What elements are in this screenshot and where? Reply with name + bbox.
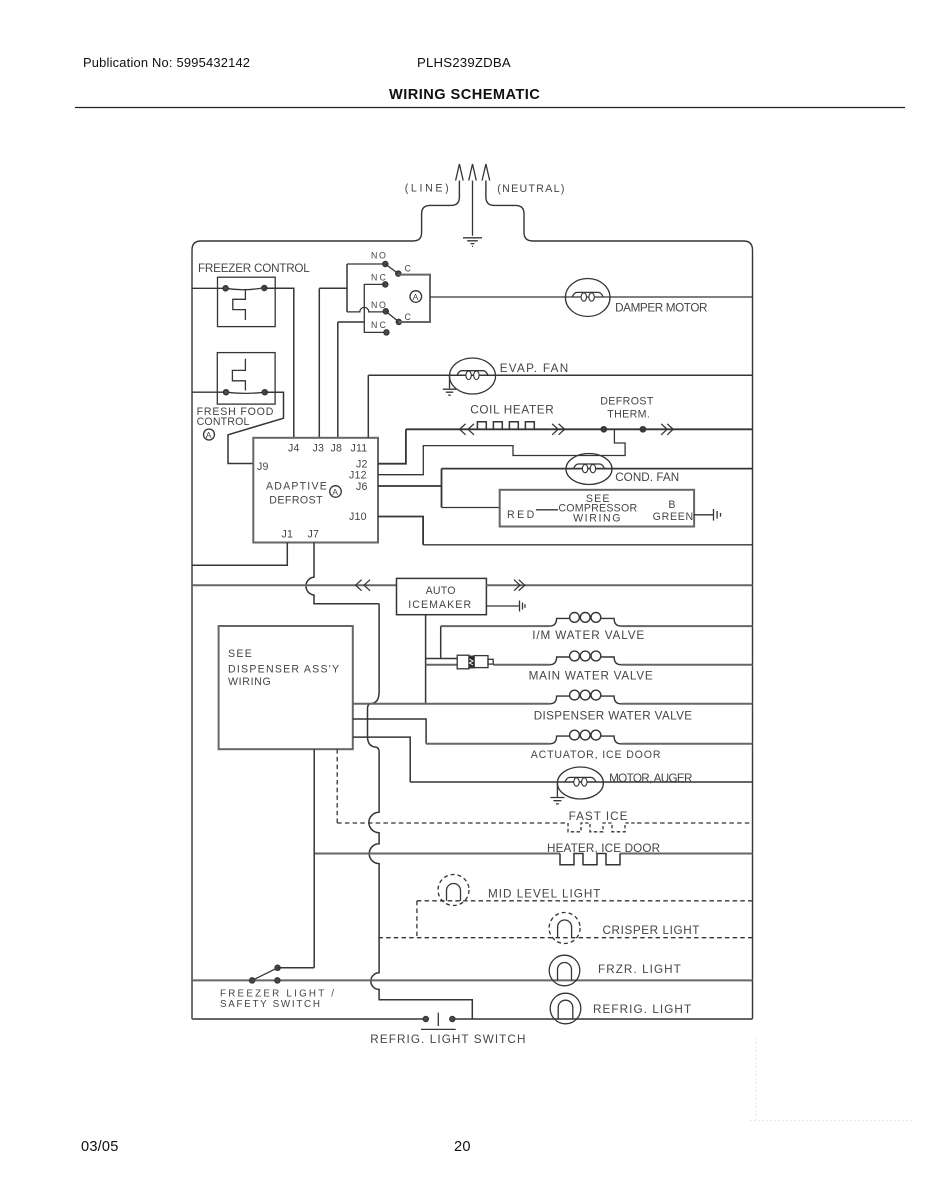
wire: I/M water valve line	[441, 625, 753, 627]
svg-text:GREEN: GREEN	[653, 511, 694, 523]
auger motor body	[557, 767, 603, 799]
wire: NC feed from J8 riser	[338, 322, 365, 438]
svg-text:WIRING: WIRING	[573, 512, 621, 524]
wire: compressor red lead	[442, 507, 500, 509]
wire: I/M valve branch jog	[426, 626, 458, 658]
svg-text:J1: J1	[282, 529, 294, 541]
compressor chassis ground symbol	[714, 509, 721, 521]
auto icemaker box	[397, 578, 487, 614]
svg-text:CRISPER LIGHT: CRISPER LIGHT	[603, 924, 700, 937]
svg-text:FAST ICE: FAST ICE	[569, 810, 628, 823]
frzr light bulb	[549, 955, 580, 986]
connector chevrons << on icemaker line	[356, 580, 370, 591]
svg-text:J11: J11	[351, 443, 368, 455]
outer boundary right edge	[744, 241, 753, 1019]
wire B: J3 riser to relay common	[319, 288, 347, 438]
wire: dispenser box to auger motor line	[353, 737, 410, 782]
svg-text:FREEZER CONTROL: FREEZER CONTROL	[198, 262, 310, 275]
wire: heater ice door line	[314, 853, 752, 855]
mid level light bulb (dashed)	[438, 875, 469, 906]
svg-text:FREEZER LIGHT /: FREEZER LIGHT /	[220, 989, 334, 1000]
wire: left bus to freezer control	[192, 287, 226, 289]
svg-text:B: B	[668, 499, 675, 511]
wire: main water valve line	[426, 664, 753, 666]
svg-text:HEATER, ICE DOOR: HEATER, ICE DOOR	[547, 842, 660, 855]
wire: J10 to neutral bus	[378, 517, 423, 545]
svg-text:J10: J10	[349, 511, 367, 523]
relay contact C2	[396, 319, 401, 324]
svg-text:NC: NC	[371, 273, 386, 283]
svg-text:SEE: SEE	[228, 648, 252, 660]
connector chevrons << on heater line	[460, 424, 474, 435]
fresh food contact right	[262, 390, 267, 395]
wire: damper motor line	[430, 296, 753, 298]
svg-text:J9: J9	[257, 461, 269, 473]
defrost circled A	[330, 486, 342, 498]
wire: left bus to auto icemaker	[192, 584, 397, 586]
wire: coil heater / defrost therm line	[406, 428, 753, 430]
svg-text:RED: RED	[507, 509, 535, 521]
outer boundary bottom edge (left of light switch)	[192, 1018, 426, 1020]
inline connector on main valve line	[457, 655, 493, 669]
damper motor winding loops	[572, 292, 603, 297]
wire: dispenser box to actuator line	[353, 719, 426, 744]
svg-text:NO: NO	[371, 300, 386, 310]
svg-text:DEFROST: DEFROST	[600, 396, 654, 408]
svg-text:A: A	[206, 430, 212, 440]
refrig light bulb	[550, 993, 581, 1024]
svg-text:A: A	[332, 487, 338, 497]
dispenser valve solenoid	[550, 690, 622, 704]
svg-text:MOTOR, AUGER: MOTOR, AUGER	[609, 772, 693, 785]
svg-text:C: C	[405, 312, 412, 322]
svg-text:(NEUTRAL): (NEUTRAL)	[497, 183, 564, 195]
I/M valve solenoid	[550, 613, 622, 627]
svg-text:AUTO: AUTO	[426, 585, 456, 597]
freezer control switch blade	[226, 288, 265, 290]
evap fan ground symbol	[443, 375, 456, 395]
wire: icemaker to neutral bus	[486, 584, 752, 586]
freezer light safety switch blade	[252, 968, 278, 981]
wire: evap fan line from J11 riser	[368, 375, 752, 438]
wire: dispenser water valve line	[353, 703, 753, 705]
svg-text:MID LEVEL LIGHT: MID LEVEL LIGHT	[488, 888, 601, 901]
wire: J1 to left bus	[192, 543, 287, 566]
svg-text:C: C	[405, 264, 412, 274]
fresh food switch blade	[226, 392, 265, 393]
wire: freezer light bus	[192, 979, 753, 981]
refrig light switch plunger	[437, 1013, 439, 1026]
connector chevrons >> on heater line	[552, 424, 565, 435]
connector chevrons >> after therm	[661, 424, 673, 435]
svg-text:J3: J3	[313, 443, 325, 455]
crisper light bulb (dashed)	[549, 913, 580, 944]
relay output box	[398, 275, 430, 322]
svg-text:20: 20	[454, 1139, 471, 1155]
svg-text:EVAP. FAN: EVAP. FAN	[500, 362, 569, 375]
wire: J12 to therm capillary	[378, 429, 625, 474]
wire: relay left vertical	[346, 264, 348, 312]
wire: actuator ice door line	[426, 743, 752, 745]
wire: cond fan line	[442, 468, 753, 470]
auger motor winding loops	[565, 777, 596, 782]
svg-text:THERM.: THERM.	[607, 409, 650, 421]
relay blade NO1-C1	[385, 264, 398, 274]
frzr light filament	[558, 963, 572, 981]
defrost therm contact right	[640, 427, 645, 432]
svg-text:SAFETY SWITCH: SAFETY SWITCH	[220, 999, 320, 1010]
svg-text:J8: J8	[331, 443, 343, 455]
safety switch contact left	[250, 978, 255, 983]
svg-text:WIRING: WIRING	[228, 676, 271, 688]
wire: relay feed to NO1	[347, 263, 385, 265]
svg-text:CONTROL: CONTROL	[197, 416, 250, 428]
wire: J7 long drop to refrig light switch	[368, 604, 473, 1019]
svg-text:I/M WATER VALVE: I/M WATER VALVE	[532, 629, 644, 642]
relay blade NO2-C2	[386, 311, 399, 322]
wire A: freezer control to J4	[264, 288, 294, 438]
svg-text:COIL HEATER: COIL HEATER	[470, 404, 554, 417]
svg-text:REFRIG. LIGHT SWITCH: REFRIG. LIGHT SWITCH	[370, 1033, 525, 1046]
wire: fast ice dashed line	[337, 822, 752, 824]
wire: left bus to fresh food control	[192, 391, 226, 393]
svg-text:COND. FAN: COND. FAN	[615, 471, 679, 484]
fresh food contact left	[223, 390, 228, 395]
refrig light filament	[558, 1000, 573, 1019]
svg-text:Publication No: 5995432142: Publication No: 5995432142	[83, 55, 250, 70]
coil heater element	[477, 422, 541, 430]
auger motor ground symbol	[550, 783, 564, 804]
svg-text:J4: J4	[288, 443, 300, 455]
relay contact NO1	[383, 261, 388, 266]
svg-text:03/05: 03/05	[81, 1139, 119, 1155]
relay contact NC1	[383, 282, 388, 287]
wire: J2 to coil heater line	[378, 429, 406, 463]
svg-text:ACTUATOR, ICE DOOR: ACTUATOR, ICE DOOR	[531, 749, 661, 761]
cond fan motor body	[566, 454, 612, 485]
freezer control thermostat element	[233, 289, 246, 320]
svg-text:WIRING SCHEMATIC: WIRING SCHEMATIC	[389, 87, 540, 103]
power ground symbol	[463, 238, 482, 247]
fresh food circled A	[204, 429, 215, 440]
wire: fast ice dashed riser	[336, 749, 338, 823]
svg-text:(LINE): (LINE)	[405, 183, 449, 195]
relay circled A	[410, 291, 422, 303]
refrig light switch contact left	[423, 1016, 428, 1021]
wire: NC1 to NC bus	[364, 284, 386, 332]
dispenser assembly box	[219, 626, 353, 749]
fast ice heater element (dashed)	[568, 823, 637, 832]
plug prong arrow (neutral)	[482, 164, 490, 181]
freezer control contact right	[262, 285, 267, 290]
wire: red lead inside box	[536, 509, 558, 511]
scan artifact dotted lines bottom right	[750, 1038, 912, 1121]
svg-text:DISPENSER ASS'Y: DISPENSER ASS'Y	[228, 663, 339, 675]
svg-text:FRZR. LIGHT: FRZR. LIGHT	[598, 963, 681, 976]
icemaker ground wire	[486, 605, 518, 607]
adaptive defrost control box	[253, 438, 378, 543]
wire: crisper light dashed line	[378, 937, 752, 939]
wire: motor auger line	[410, 781, 752, 783]
crisper light filament	[558, 920, 572, 938]
outer boundary left edge	[192, 241, 201, 1019]
freezer control contact left	[223, 286, 228, 291]
wire: NO2 feed with hop	[347, 307, 386, 312]
mid level light filament	[447, 884, 461, 901]
relay contact NC2	[384, 330, 389, 335]
defrost therm contact left	[601, 427, 606, 432]
svg-text:J7: J7	[308, 529, 320, 541]
fresh food control box	[217, 353, 275, 405]
freezer control box	[218, 277, 276, 326]
svg-text:J6: J6	[356, 481, 368, 493]
refrig light switch underline	[421, 1028, 456, 1030]
evap fan motor body	[450, 358, 496, 394]
refrig light switch contact right	[450, 1016, 455, 1021]
actuator solenoid	[550, 730, 622, 744]
main valve solenoid	[550, 651, 622, 665]
evap fan winding loops	[457, 371, 488, 376]
svg-text:A: A	[413, 292, 419, 302]
svg-text:ICEMAKER: ICEMAKER	[408, 599, 471, 611]
compressor box	[500, 490, 694, 527]
damper motor body	[565, 279, 610, 317]
icemaker chassis ground symbol	[520, 601, 526, 612]
compressor green ground wire	[694, 514, 713, 516]
fresh food thermostat element	[232, 359, 245, 391]
safety switch contact upper	[275, 965, 280, 970]
svg-text:NO: NO	[371, 251, 386, 261]
connector chevrons >> on icemaker output	[514, 580, 525, 591]
svg-text:DISPENSER WATER VALVE: DISPENSER WATER VALVE	[534, 710, 693, 723]
svg-text:DAMPER MOTOR: DAMPER MOTOR	[615, 302, 708, 315]
svg-text:PLHS239ZDBA: PLHS239ZDBA	[417, 55, 511, 70]
svg-text:DEFROST: DEFROST	[269, 495, 323, 507]
wire: icemaker bottom pin riser (valve feed)	[425, 615, 427, 704]
svg-text:ADAPTIVE: ADAPTIVE	[266, 481, 327, 493]
svg-text:NC: NC	[371, 320, 386, 330]
wire: fresh food control to J9	[228, 392, 284, 463]
plug prong arrow (ground)	[469, 164, 477, 236]
wire: J7 drop with hop over icemaker line	[306, 543, 379, 604]
plug prong arrow (line)	[456, 164, 464, 181]
wire: safety switch to dispenser box	[278, 749, 315, 968]
svg-text:REFRIG. LIGHT: REFRIG. LIGHT	[593, 1003, 691, 1016]
wire: J6 to cond fan and compressor	[378, 469, 442, 508]
title rule	[75, 107, 905, 109]
wire: neutral return line	[423, 544, 752, 546]
cond fan winding loops	[574, 464, 605, 469]
relay contact NO2	[383, 309, 388, 314]
outer boundary top with plug cutout	[201, 181, 744, 242]
safety switch contact mid	[275, 978, 280, 983]
svg-text:MAIN WATER VALVE: MAIN WATER VALVE	[529, 670, 653, 683]
svg-text:J12: J12	[349, 470, 367, 482]
ice door heater element	[560, 854, 620, 865]
relay contact C1	[396, 271, 401, 276]
wire: mid level dashed riser	[416, 901, 418, 938]
wire: mid level light dashed line	[417, 900, 753, 902]
outer boundary bottom edge (right of light switch)	[452, 1018, 752, 1020]
